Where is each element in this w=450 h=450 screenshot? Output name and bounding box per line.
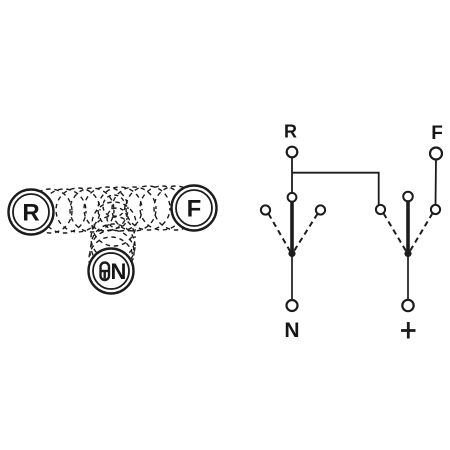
switch SW2 right throw dashed [410,213,433,251]
terminal F [430,148,442,160]
wire branch to SW2 [292,173,379,205]
dashed motion arcs of knob sweeping R to F [28,186,198,233]
switch SW2 right throw contact [431,205,440,214]
switch SW1 right throw contact [316,205,325,214]
svg-text:N: N [284,319,299,342]
knob R [9,190,54,235]
terminal plus [402,300,413,311]
dashed pivot circles at centre of tee [103,195,127,228]
svg-text:F: F [431,123,443,144]
wire R terminal to pole SW1 [291,158,293,193]
terminal R [287,147,298,158]
switch SW1 pole contact [288,193,297,202]
switch SW2 junction [404,250,411,257]
terminal N [287,300,298,311]
switch SW1 right throw dashed [294,214,318,251]
knob N [89,249,134,294]
svg-text:N: N [111,259,127,284]
switch SW2 lever [406,202,410,252]
label plus [401,322,416,339]
knob F [172,186,217,231]
wire F terminal to SW2 right throw [435,160,438,206]
dashed motion arcs of knob sweeping down to N [89,202,136,281]
switch SW1 left throw dashed [269,214,291,251]
lock icon in knob N [101,263,110,281]
switch SW2 pole contact [403,192,413,202]
switch SW2 left throw dashed [384,213,407,251]
svg-text:R: R [284,122,297,142]
switch SW2 left throw contact [376,205,385,214]
svg-text:R: R [22,200,39,227]
wire SW1 to N terminal [291,257,293,301]
svg-text:F: F [187,196,202,223]
switch SW1 junction [288,250,295,257]
wire SW2 to plus terminal [407,257,409,301]
switch SW1 left throw contact [261,205,270,214]
switch SW1 lever [290,202,294,251]
